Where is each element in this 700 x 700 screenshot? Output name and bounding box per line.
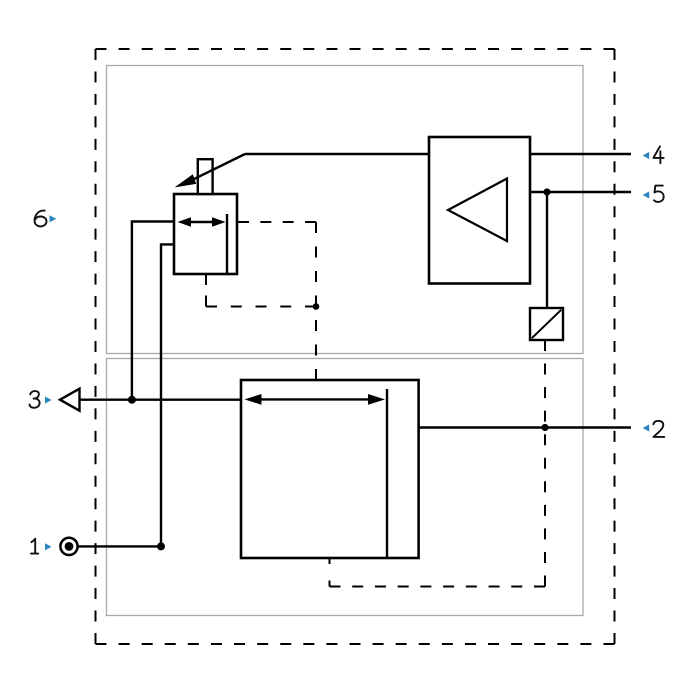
pointer 1 xyxy=(45,543,52,550)
wire: riser from 1 to pilot valve xyxy=(161,244,174,546)
label 4 xyxy=(653,146,663,163)
actuator cylinder xyxy=(241,380,419,558)
pilot valve travel arrow xyxy=(178,217,226,226)
wire: input 1 run xyxy=(78,545,161,547)
actuator piston wall xyxy=(386,389,388,557)
enclosure top (gray frame) xyxy=(107,66,584,354)
dashed link: sensor right to node xyxy=(238,221,316,223)
arrowhead onto pilot valve xyxy=(175,174,197,187)
pointer 6 xyxy=(50,215,57,222)
pointer 3 xyxy=(45,396,52,403)
actuator travel arrow xyxy=(245,394,386,405)
converter diagonal xyxy=(532,310,561,338)
enclosure bottom (gray frame) xyxy=(107,359,584,616)
node (dashed junction) xyxy=(313,303,320,310)
pointer 5 xyxy=(643,191,650,198)
outer dashed boundary right xyxy=(614,49,616,644)
amplifier block U1 xyxy=(429,137,530,284)
dashed vertical up to converter square xyxy=(544,340,546,587)
dashed bottom run to the right xyxy=(330,586,546,588)
outer dashed boundary bottom xyxy=(96,643,615,645)
label 1 xyxy=(31,539,38,554)
wire: output 2 run xyxy=(419,426,631,428)
node on wire 2 xyxy=(541,424,548,431)
converter square (I/P) xyxy=(530,308,563,340)
wire: riser from 3 to pilot valve xyxy=(132,222,174,400)
wire: diagonal actuation line xyxy=(192,154,245,180)
label 6 xyxy=(35,211,47,227)
dashed vertical through node to actuator box xyxy=(315,222,317,380)
dashed link: sensor bottom down xyxy=(205,274,207,307)
wire 4 left segment with bend to arrow xyxy=(245,153,631,155)
pointer 2 xyxy=(643,424,650,431)
node on wire 5 xyxy=(543,188,550,195)
pilot valve inner wall xyxy=(226,214,228,273)
port 3 connector (vent triangle) xyxy=(60,389,80,411)
amplifier triangle xyxy=(448,179,507,242)
pointer 4 xyxy=(643,152,650,159)
wire: output 3 run xyxy=(80,399,242,401)
pilot valve body xyxy=(174,194,237,274)
label 2 xyxy=(653,421,664,437)
wire 5 run xyxy=(530,191,631,193)
dashed link: sensor bottom to node xyxy=(206,306,316,308)
wire: drop from wire 5 to converter square xyxy=(546,192,548,308)
node on wire 3 xyxy=(128,396,136,404)
label 5 xyxy=(654,186,664,202)
outer dashed boundary top xyxy=(96,48,615,50)
dashed link: actuator bottom down xyxy=(329,558,331,587)
pilot valve stem xyxy=(198,159,213,194)
label 3 xyxy=(30,391,40,408)
port 1 connector (supply circle) xyxy=(60,538,77,555)
node on wire 1 xyxy=(157,542,165,550)
outer dashed boundary left xyxy=(95,49,97,644)
